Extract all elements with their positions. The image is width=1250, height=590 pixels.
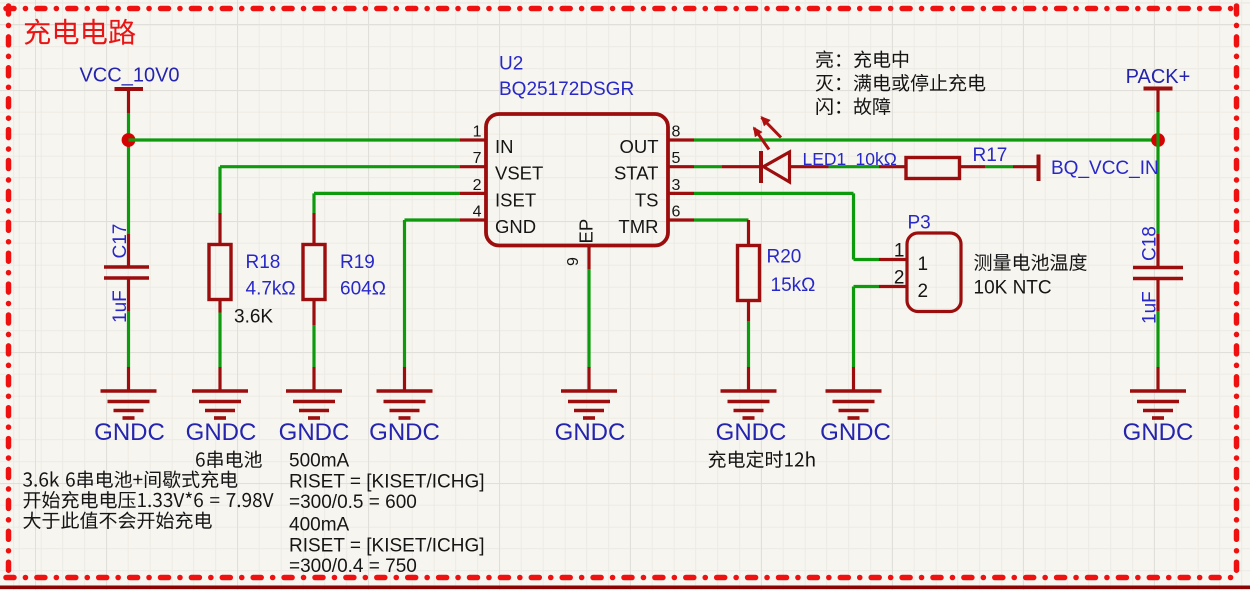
svg-text:500mA: 500mA bbox=[289, 451, 350, 472]
svg-text:2: 2 bbox=[894, 268, 905, 289]
svg-text:10kΩ: 10kΩ bbox=[856, 149, 897, 169]
note 开始充电电压 bbox=[24, 491, 274, 509]
resistor R18 4.7k bbox=[209, 213, 296, 313]
IC U2 BQ25172DSGR bbox=[460, 54, 694, 270]
svg-text:5: 5 bbox=[672, 150, 681, 167]
ground GNDC (R19) bbox=[279, 367, 350, 446]
note 测量电池温度 bbox=[974, 253, 1087, 271]
note LED states line2 bbox=[816, 74, 986, 92]
svg-text:GNDC: GNDC bbox=[716, 419, 787, 446]
svg-text:3.6K: 3.6K bbox=[234, 307, 273, 328]
svg-text:GNDC: GNDC bbox=[369, 419, 440, 446]
wire STAT to LED bbox=[694, 165, 722, 168]
capacitor C18 1uF bbox=[1133, 226, 1183, 324]
svg-text:OUT: OUT bbox=[619, 136, 658, 157]
wire C17 to ground bbox=[127, 311, 130, 367]
svg-text:TMR: TMR bbox=[618, 216, 658, 237]
svg-text:R19: R19 bbox=[340, 252, 375, 273]
wire LED to R17 bbox=[829, 165, 880, 168]
svg-text:604Ω: 604Ω bbox=[340, 279, 386, 300]
wire C18 to ground bbox=[1156, 311, 1159, 367]
svg-text:U2: U2 bbox=[499, 54, 523, 75]
svg-text:VCC_10V0: VCC_10V0 bbox=[79, 65, 179, 87]
note 10K NTC bbox=[974, 278, 1052, 299]
wire VSET net bbox=[220, 167, 460, 213]
svg-text:R17: R17 bbox=[973, 145, 1008, 166]
svg-text:1: 1 bbox=[918, 254, 929, 275]
svg-text:R20: R20 bbox=[767, 247, 802, 268]
power port VCC_10V0 bbox=[79, 65, 179, 114]
svg-text:GNDC: GNDC bbox=[555, 419, 626, 446]
junction node OUT/PACK+ bbox=[1151, 133, 1165, 147]
wire R18 to ground bbox=[218, 313, 221, 368]
svg-text:15kΩ: 15kΩ bbox=[771, 275, 816, 296]
svg-text:ISET: ISET bbox=[495, 189, 536, 210]
wire ISET net bbox=[314, 193, 460, 213]
resistor R20 15k bbox=[738, 220, 816, 321]
wire R17 to net label bbox=[985, 165, 1013, 168]
svg-text:3: 3 bbox=[672, 177, 681, 194]
svg-text:10K NTC: 10K NTC bbox=[974, 278, 1052, 299]
svg-text:EP: EP bbox=[576, 219, 597, 244]
svg-text:9: 9 bbox=[565, 257, 582, 266]
svg-text:GNDC: GNDC bbox=[94, 419, 165, 446]
svg-text:C18: C18 bbox=[1140, 226, 1161, 261]
svg-text:GNDC: GNDC bbox=[820, 419, 891, 446]
svg-text:400mA: 400mA bbox=[289, 515, 350, 536]
net label BQ_VCC_IN bbox=[1013, 155, 1159, 182]
ground GNDC (R18) bbox=[186, 367, 257, 446]
svg-text:4: 4 bbox=[473, 204, 482, 221]
svg-text:P3: P3 bbox=[908, 213, 931, 234]
note LED states line3 bbox=[817, 98, 891, 116]
svg-text:1: 1 bbox=[473, 124, 482, 141]
svg-text:RISET = [KISET/ICHG]: RISET = [KISET/ICHG] bbox=[289, 536, 485, 557]
wire VCC_10V0 vertical bbox=[127, 113, 130, 234]
svg-text:8: 8 bbox=[672, 124, 681, 141]
svg-text:RISET = [KISET/ICHG]: RISET = [KISET/ICHG] bbox=[289, 472, 485, 493]
junction node VCC/IN bbox=[122, 133, 136, 147]
power port PACK+ bbox=[1126, 66, 1191, 112]
wire OUT net bbox=[694, 138, 1158, 141]
note RISET 500mA block bbox=[289, 451, 485, 578]
LED light arrows bbox=[753, 116, 781, 150]
ground GNDC (P3) bbox=[820, 367, 891, 446]
title 充电电路 bbox=[25, 19, 136, 45]
svg-text:VSET: VSET bbox=[495, 163, 543, 184]
wire TS net bbox=[694, 193, 879, 259]
svg-text:=300/0.4 = 750: =300/0.4 = 750 bbox=[289, 556, 417, 577]
svg-text:6: 6 bbox=[672, 204, 681, 221]
wire R20 to ground bbox=[747, 321, 750, 367]
note 3.6k 6串电池+间歇式充电 bbox=[23, 471, 237, 489]
wire GND pin4 net bbox=[405, 220, 461, 367]
svg-text:GNDC: GNDC bbox=[1123, 419, 1194, 446]
svg-text:4.7kΩ: 4.7kΩ bbox=[246, 279, 296, 300]
wire R19 to ground bbox=[312, 325, 315, 367]
note LED states line1 bbox=[816, 50, 908, 68]
svg-text:STAT: STAT bbox=[614, 163, 659, 184]
wire IN net bbox=[129, 138, 461, 141]
note 充电定时12h bbox=[709, 450, 815, 468]
wire TMR net bbox=[694, 218, 749, 221]
note 大于此值不会开始充电 bbox=[23, 512, 212, 530]
svg-text:R18: R18 bbox=[246, 252, 281, 273]
svg-text:PACK+: PACK+ bbox=[1126, 66, 1191, 88]
ground GNDC (C18) bbox=[1123, 367, 1194, 446]
svg-text:C17: C17 bbox=[110, 224, 131, 259]
LED LED1 bbox=[722, 149, 846, 183]
svg-text:GND: GND bbox=[495, 216, 536, 237]
resistor R19 604 bbox=[303, 213, 386, 325]
ground GNDC (C17) bbox=[94, 367, 165, 446]
capacitor C17 1uF bbox=[104, 224, 149, 323]
wire EP to ground bbox=[587, 269, 590, 368]
svg-text:TS: TS bbox=[635, 189, 659, 210]
svg-text:2: 2 bbox=[918, 281, 929, 302]
svg-text:GNDC: GNDC bbox=[186, 419, 257, 446]
ground GNDC (EP) bbox=[555, 367, 626, 446]
svg-text:7: 7 bbox=[473, 150, 482, 167]
svg-text:BQ_VCC_IN: BQ_VCC_IN bbox=[1051, 158, 1159, 179]
note 3.6K bbox=[234, 307, 273, 328]
svg-text:2: 2 bbox=[473, 177, 482, 194]
wire PACK+ vertical bbox=[1156, 112, 1159, 234]
svg-text:1: 1 bbox=[894, 241, 905, 262]
svg-text:BQ25172DSGR: BQ25172DSGR bbox=[499, 79, 634, 100]
connector P3 bbox=[879, 213, 961, 312]
svg-text:GNDC: GNDC bbox=[279, 419, 350, 446]
ground GNDC (pin GND) bbox=[369, 367, 440, 446]
wire P3 pin2 to ground bbox=[854, 287, 880, 368]
note 6串电池 bbox=[196, 451, 262, 469]
svg-text:=300/0.5 = 600: =300/0.5 = 600 bbox=[289, 492, 417, 513]
resistor R17 10k bbox=[856, 145, 1008, 179]
ground GNDC (R20) bbox=[716, 367, 787, 446]
svg-text:IN: IN bbox=[495, 136, 514, 157]
